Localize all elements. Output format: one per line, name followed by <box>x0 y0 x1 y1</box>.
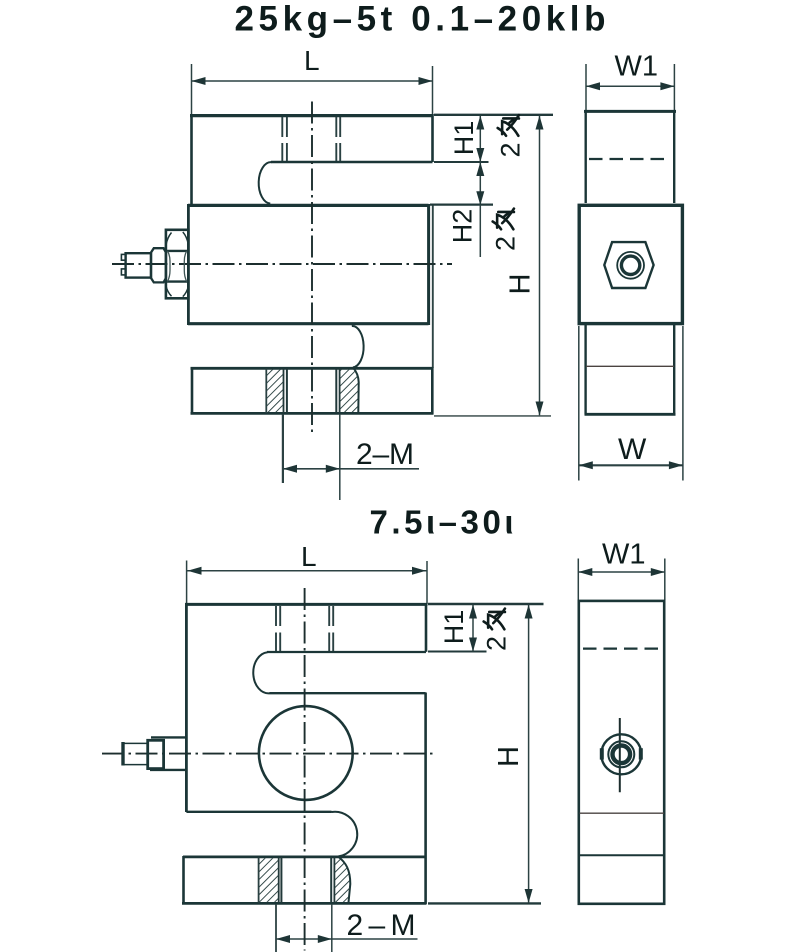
side top block (fig1) <box>584 110 676 203</box>
thread hole lines (fig2) <box>276 606 333 651</box>
dimension H2 (fig1) <box>430 162 493 257</box>
svg-text:L: L <box>304 45 320 76</box>
svg-text:H1: H1 <box>439 610 469 645</box>
dimension H1 (fig2) <box>428 604 544 652</box>
dimension L (fig2) <box>187 561 427 606</box>
centerline vertical (fig2) <box>304 588 306 951</box>
centerline horizontal (fig2) <box>102 753 436 755</box>
svg-text:25kg–5t 0.1–20klb: 25kg–5t 0.1–20klb <box>235 0 606 39</box>
hatch right wedge (fig1) <box>336 369 358 414</box>
hex nut side (fig1) <box>604 242 653 288</box>
svg-text:2: 2 <box>496 142 526 157</box>
svg-text:H: H <box>493 746 525 767</box>
centerline horizontal (fig1) <box>112 263 452 265</box>
label 2chu for H2 (fig1) <box>491 209 521 251</box>
label 2chu for H1 (fig1) <box>496 115 526 157</box>
svg-text:W1: W1 <box>602 539 646 571</box>
dimension L (fig1) <box>192 64 433 116</box>
hatch right wedge (fig2) <box>331 858 350 903</box>
side middle block (fig1) <box>579 205 682 323</box>
bottom block (fig2) <box>182 856 427 904</box>
dimension 2-M (fig2) <box>276 904 418 952</box>
center hole circle (fig2) <box>259 706 353 800</box>
bottom block (fig1) <box>191 368 434 415</box>
top block (fig1) <box>190 114 434 205</box>
dimension 2-M (fig1) <box>283 414 419 500</box>
dimension W1 (fig1 side) <box>586 64 674 111</box>
title 7.5t-30t <box>370 504 514 541</box>
hatch left band (fig1) <box>266 369 287 414</box>
svg-text:L: L <box>301 541 317 572</box>
dimension H (fig1) <box>434 116 551 416</box>
right thin connecting line (fig1) <box>432 204 434 368</box>
side body (fig2) <box>579 601 664 904</box>
middle block (fig1) <box>188 204 429 325</box>
hatch left band (fig2) <box>259 858 282 903</box>
bolt and nut left (fig1) <box>121 230 188 298</box>
dimension H1 (fig1) <box>434 115 553 162</box>
svg-text:2–M: 2–M <box>356 438 414 471</box>
title 25kg-5t 0.1-20klb <box>235 0 606 39</box>
svg-text:H1: H1 <box>449 121 479 156</box>
upper slot arc (fig2) <box>253 652 270 693</box>
svg-text:W: W <box>618 433 647 466</box>
svg-text:2–M: 2–M <box>347 909 416 942</box>
svg-text:H2: H2 <box>448 209 478 244</box>
dimension H (fig2) <box>428 605 541 904</box>
body outline (fig2) <box>185 603 428 904</box>
svg-text:H: H <box>505 274 537 295</box>
label 2chu for H1 (fig2) <box>482 609 512 651</box>
thread hole lines top (fig1) <box>282 117 340 161</box>
bolt left (fig2) <box>122 737 186 770</box>
lower slot arc (fig1) <box>352 326 364 413</box>
svg-text:W1: W1 <box>615 51 659 83</box>
nut circles side (fig2) <box>600 718 643 792</box>
svg-text:7.5ι–30ι: 7.5ι–30ι <box>370 504 514 541</box>
centerline vertical (fig1) <box>311 102 313 434</box>
upper slot arc <box>259 162 272 203</box>
lower slot (fig2) <box>186 812 357 903</box>
dimension W1 (fig2 side) <box>578 559 665 601</box>
svg-text:2: 2 <box>491 236 521 251</box>
dimension W (fig1 side) <box>579 326 683 481</box>
side bottom block (fig1) <box>585 325 676 415</box>
svg-text:2: 2 <box>482 636 512 651</box>
